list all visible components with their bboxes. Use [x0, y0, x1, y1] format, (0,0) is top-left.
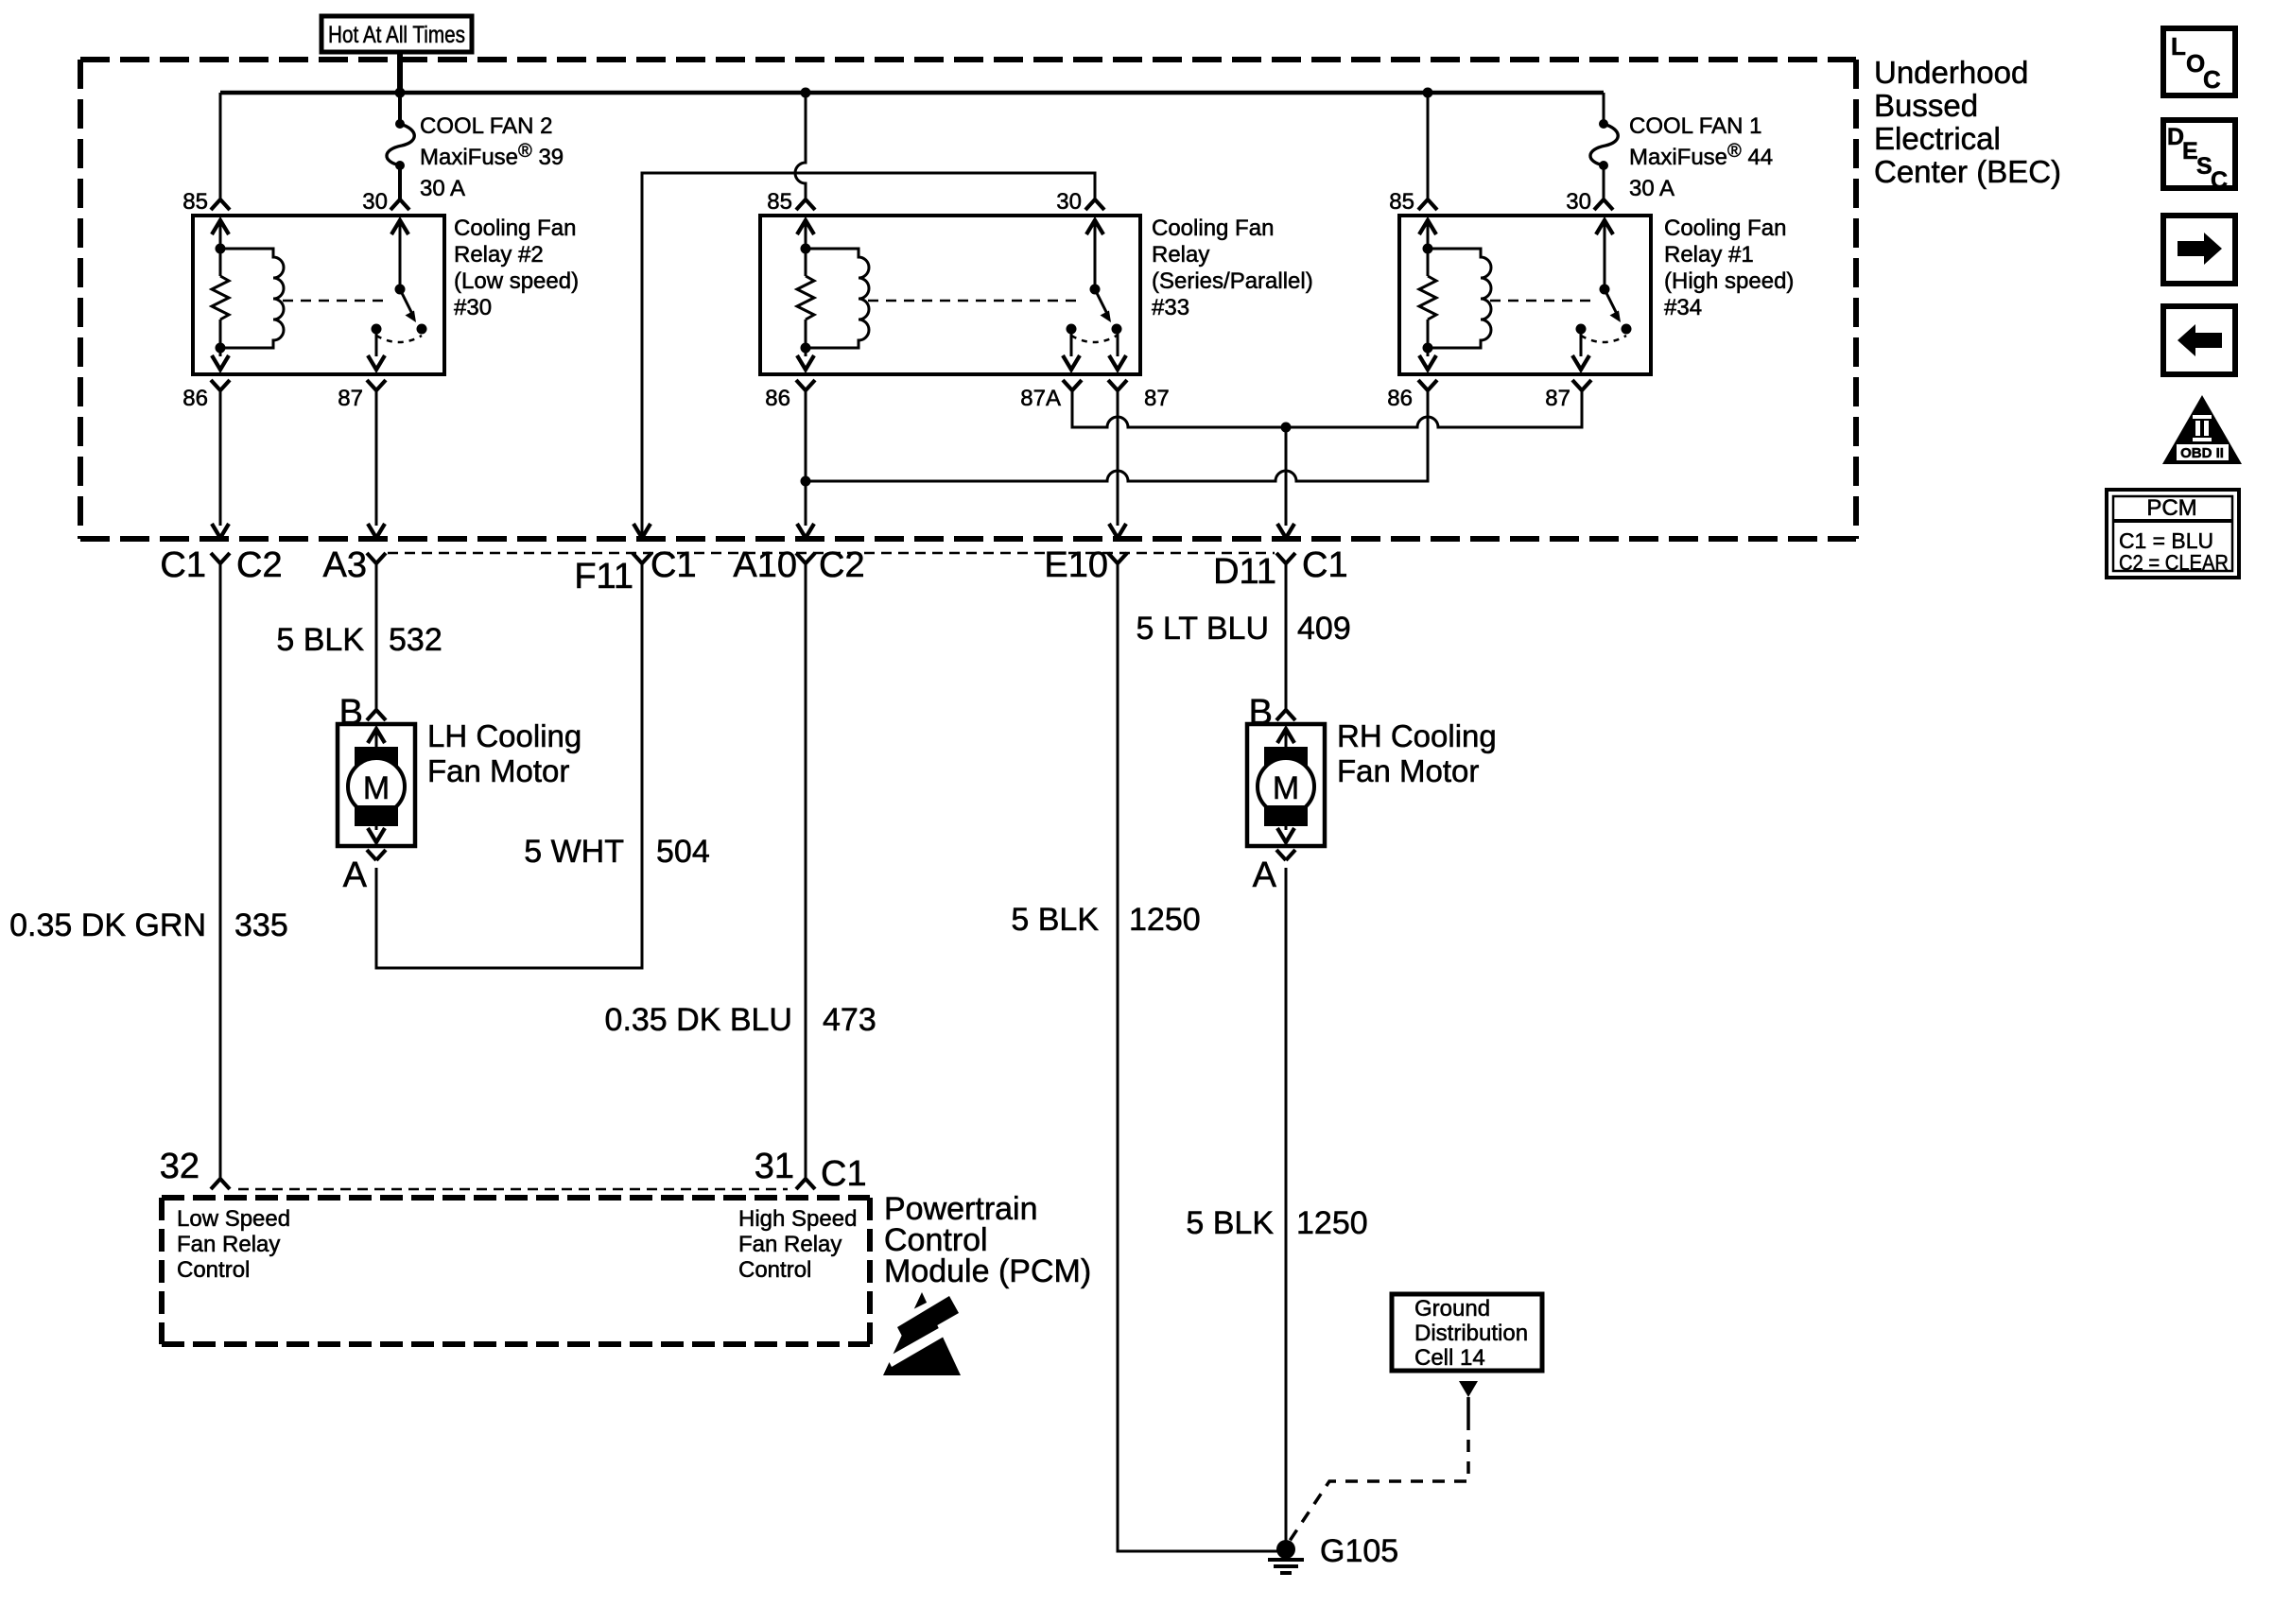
svg-text:C1: C1: [651, 545, 697, 585]
svg-text:A: A: [1253, 855, 1277, 895]
svg-text:Relay: Relay: [1152, 242, 1209, 268]
svg-text:87A: 87A: [1020, 386, 1061, 411]
svg-text:30 A: 30 A: [420, 176, 465, 201]
svg-text:C2: C2: [819, 545, 865, 585]
svg-text:Control: Control: [738, 1257, 811, 1283]
svg-text:COOL FAN 2: COOL FAN 2: [420, 113, 552, 139]
svg-text:A10: A10: [733, 545, 797, 585]
svg-text:C: C: [2203, 65, 2221, 94]
svg-text:86: 86: [765, 386, 790, 411]
svg-text:Fan Relay: Fan Relay: [177, 1232, 280, 1257]
svg-text:LH Cooling: LH Cooling: [427, 718, 581, 753]
svg-text:Relay #1: Relay #1: [1664, 242, 1754, 268]
svg-text:A: A: [343, 855, 368, 895]
svg-text:0.35 DK BLU: 0.35 DK BLU: [605, 1002, 792, 1038]
svg-text:C2 = CLEAR: C2 = CLEAR: [2119, 550, 2229, 575]
svg-text:1250: 1250: [1129, 902, 1201, 938]
svg-text:F11: F11: [574, 557, 633, 596]
svg-text:5 WHT: 5 WHT: [524, 834, 624, 870]
svg-text:Ground: Ground: [1414, 1296, 1490, 1322]
svg-text:(Series/Parallel): (Series/Parallel): [1152, 268, 1313, 294]
svg-text:RH Cooling: RH Cooling: [1337, 718, 1497, 753]
svg-text:32: 32: [160, 1147, 200, 1186]
svg-text:Underhood: Underhood: [1874, 55, 2028, 90]
svg-text:Distribution: Distribution: [1414, 1321, 1528, 1346]
svg-text:#34: #34: [1664, 295, 1702, 320]
svg-text:5 BLK: 5 BLK: [1186, 1205, 1274, 1241]
svg-text:COOL FAN 1: COOL FAN 1: [1629, 113, 1761, 139]
svg-text:30 A: 30 A: [1629, 176, 1674, 201]
svg-text:(Low speed): (Low speed): [454, 268, 579, 294]
svg-text:5 BLK: 5 BLK: [1011, 902, 1099, 938]
svg-text:L: L: [2171, 32, 2186, 60]
svg-text:85: 85: [767, 189, 792, 215]
svg-text:85: 85: [1389, 189, 1414, 215]
svg-text:Control: Control: [177, 1257, 250, 1283]
svg-text:504: 504: [656, 834, 710, 870]
svg-text:473: 473: [823, 1002, 876, 1038]
svg-text:Low Speed: Low Speed: [177, 1206, 290, 1232]
svg-text:(High speed): (High speed): [1664, 268, 1794, 294]
svg-text:87: 87: [1545, 386, 1570, 411]
svg-text:0.35 DK GRN: 0.35 DK GRN: [9, 907, 206, 943]
svg-text:5 BLK: 5 BLK: [276, 622, 364, 658]
svg-text:5 LT BLU: 5 LT BLU: [1136, 611, 1269, 647]
svg-text:Fan Relay: Fan Relay: [738, 1232, 842, 1257]
svg-text:Cooling Fan: Cooling Fan: [1152, 216, 1274, 241]
svg-text:Relay #2: Relay #2: [454, 242, 544, 268]
svg-text:High Speed: High Speed: [738, 1206, 857, 1232]
svg-text:30: 30: [1056, 189, 1082, 215]
svg-text:PCM: PCM: [2146, 495, 2196, 521]
svg-text:87: 87: [1144, 386, 1170, 411]
svg-text:Bussed: Bussed: [1874, 88, 1978, 123]
svg-text:E10: E10: [1044, 545, 1108, 585]
svg-text:Cooling Fan: Cooling Fan: [1664, 216, 1786, 241]
svg-text:C: C: [2211, 167, 2228, 194]
svg-text:Fan Motor: Fan Motor: [427, 753, 569, 788]
svg-text:C1: C1: [1302, 545, 1348, 585]
svg-text:#33: #33: [1152, 295, 1189, 320]
svg-text:30: 30: [362, 189, 388, 215]
svg-text:Hot At All Times: Hot At All Times: [328, 22, 465, 48]
svg-text:C1: C1: [160, 545, 206, 585]
svg-text:G105: G105: [1320, 1533, 1398, 1569]
svg-text:31: 31: [755, 1147, 794, 1186]
svg-text:#30: #30: [454, 295, 492, 320]
svg-text:86: 86: [182, 386, 208, 411]
svg-text:Fan Motor: Fan Motor: [1337, 753, 1479, 788]
svg-text:M: M: [363, 770, 390, 806]
svg-text:1250: 1250: [1296, 1205, 1368, 1241]
svg-text:Cell 14: Cell 14: [1414, 1345, 1485, 1371]
svg-text:MaxiFuse® 39: MaxiFuse® 39: [420, 141, 564, 170]
svg-text:87: 87: [338, 386, 363, 411]
svg-text:OBD II: OBD II: [2180, 445, 2224, 461]
svg-text:B: B: [1249, 693, 1273, 733]
svg-text:Cooling Fan: Cooling Fan: [454, 216, 576, 241]
svg-text:30: 30: [1566, 189, 1591, 215]
svg-text:D11: D11: [1213, 552, 1276, 592]
svg-text:85: 85: [182, 189, 208, 215]
svg-text:C2: C2: [236, 545, 283, 585]
svg-text:B: B: [339, 693, 363, 733]
svg-text:86: 86: [1387, 386, 1413, 411]
svg-text:M: M: [1273, 770, 1299, 806]
svg-text:Electrical: Electrical: [1874, 121, 2001, 156]
svg-text:Module (PCM): Module (PCM): [884, 1253, 1091, 1289]
svg-text:335: 335: [234, 907, 288, 943]
svg-text:MaxiFuse® 44: MaxiFuse® 44: [1629, 141, 1773, 170]
svg-text:532: 532: [389, 622, 442, 658]
svg-text:C1: C1: [821, 1154, 867, 1194]
svg-text:409: 409: [1297, 611, 1351, 647]
svg-text:Center (BEC): Center (BEC): [1874, 154, 2061, 189]
svg-text:A3: A3: [323, 545, 367, 585]
